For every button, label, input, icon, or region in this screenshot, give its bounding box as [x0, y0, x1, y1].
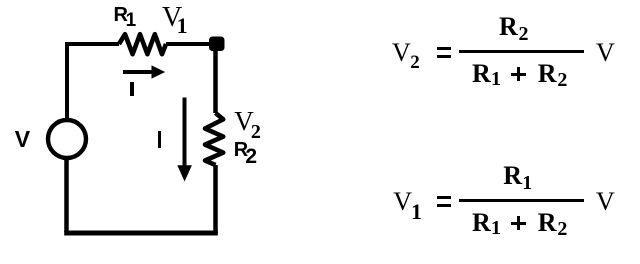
label V (source): [15, 128, 30, 151]
wire: left vertical lower segment: [64, 158, 69, 232]
node V1 junction dot: [209, 37, 225, 52]
wire: bottom horizontal segment: [64, 231, 218, 236]
eq2 denominator subscript 2: [557, 219, 567, 239]
eq2 result V: [596, 189, 615, 215]
wire: top-right horizontal segment: [166, 42, 215, 46]
eq2 numerator R1 R: [503, 163, 522, 189]
wire: right vertical upper segment: [213, 44, 218, 113]
label I (side current): [158, 131, 161, 149]
eq1 denominator subscript 2: [557, 70, 567, 90]
eq2 V1 V: [393, 189, 412, 215]
label V1 (V): [162, 4, 182, 32]
wire: left upper vertical + top-left horizontal segment: [67, 44, 119, 120]
eq1 denominator plus sign: [511, 73, 525, 76]
label R1 subscript 1: [126, 11, 137, 30]
current I vertical arrow shaft: [183, 98, 187, 168]
resistor R1 zigzag: [119, 34, 166, 54]
current I horizontal arrow shaft: [123, 70, 154, 74]
current I horizontal arrowhead: [152, 65, 166, 78]
label R2 (R): [234, 140, 248, 160]
eq2 denominator subscript 1: [491, 218, 501, 238]
label R2 subscript 2: [245, 146, 257, 167]
label V2 subscript 2: [251, 122, 261, 142]
eq2 denominator R2 R: [538, 210, 557, 236]
eq2 V1 subscript 1: [411, 201, 422, 223]
label R1 (R): [114, 5, 128, 25]
eq2 equals sign: [437, 196, 452, 199]
label V1 subscript 1: [177, 15, 188, 37]
current I vertical arrowhead: [177, 165, 192, 181]
eq1 V2 V: [392, 40, 411, 66]
eq1 V2 subscript 2: [410, 53, 420, 72]
eq1 denominator R1 R: [472, 61, 491, 87]
eq1 equals sign: [437, 47, 452, 50]
label I (top current): [130, 82, 134, 96]
eq1 denominator subscript 1: [491, 69, 501, 89]
voltage source V circle: [48, 120, 86, 158]
eq1 numerator subscript 2: [519, 24, 529, 44]
label V2 (V): [234, 108, 254, 135]
eq2 denominator plus sign: [511, 222, 525, 225]
wire: right vertical lower segment: [213, 165, 218, 235]
eq2 denominator R1 R: [472, 210, 491, 236]
eq1 result V: [596, 40, 615, 66]
eq2 numerator subscript 1: [522, 173, 532, 193]
eq1 denominator R2 R: [538, 61, 557, 87]
eq2 fraction bar: [459, 199, 584, 202]
eq1 numerator R2 R: [499, 14, 518, 40]
eq1 fraction bar: [459, 50, 584, 53]
resistor R2 zigzag: [205, 113, 223, 165]
